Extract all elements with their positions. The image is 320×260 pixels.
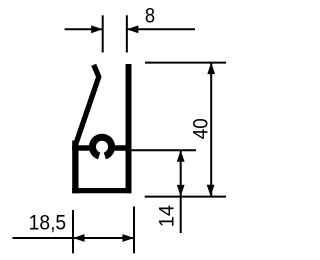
dim 8: right extension line — [126, 15, 128, 52]
profile: box top edge — [72, 145, 131, 151]
profile: left wall — [72, 141, 78, 194]
dim 8: right tail line — [127, 28, 195, 30]
dim 8: left tail line — [65, 28, 103, 30]
profile: keyhole white cutout (wedge opening downward) — [97, 147, 107, 163]
profile: right wall — [126, 64, 132, 193]
svg-text:18,5: 18,5 — [29, 211, 67, 234]
dim 14: bottom arrow (pointing down) — [177, 185, 185, 197]
dim 8: left extension line — [102, 15, 104, 52]
dim 18,5: right arrow (pointing right) — [123, 234, 135, 242]
profile: bottom edge — [72, 188, 131, 193]
dim 18,5: right extension line — [133, 207, 135, 254]
dim 14: top arrow (pointing up) — [177, 150, 185, 162]
profile: ring outer circle — [89, 134, 115, 160]
dim 40: top extension line — [145, 62, 226, 64]
dim 8: left arrow (pointing right) — [91, 25, 103, 33]
dim 40: dimension line — [210, 63, 212, 197]
profile: slanted spring arm with top hook — [76, 65, 99, 143]
svg-text:14: 14 — [155, 205, 178, 228]
dim 18,5: dimension line — [13, 237, 135, 239]
svg-text:40: 40 — [190, 118, 213, 139]
dim 40: top arrow (pointing up) — [207, 63, 215, 75]
dim 18,5: left arrow (pointing left) — [73, 234, 85, 242]
dim 18,5: left extension line — [72, 210, 74, 253]
dim 14: dimension line with tail — [180, 150, 182, 233]
dim 8: right arrow (pointing left) — [127, 25, 139, 33]
dim 40: bottom arrow (pointing down) — [207, 185, 215, 197]
dim 14: middle extension line — [131, 149, 196, 151]
profile: keyhole white cutout (inner circle) — [96, 141, 108, 153]
svg-text:8: 8 — [145, 5, 155, 28]
dim 40/14: bottom extension line — [145, 196, 226, 198]
